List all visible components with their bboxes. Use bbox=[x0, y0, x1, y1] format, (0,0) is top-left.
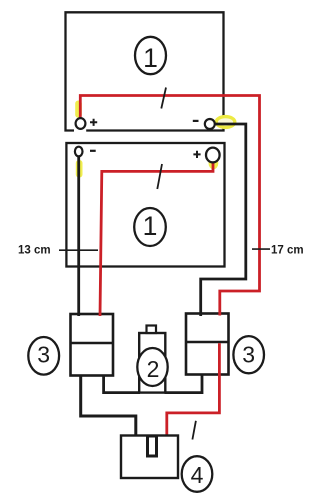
wire black right block 3 bottom to lamp 2 bbox=[165, 375, 203, 393]
pointer line 17 cm bbox=[252, 248, 270, 250]
plus sign B1 bbox=[90, 119, 97, 126]
label circle 3 right bbox=[233, 336, 264, 373]
svg-text:1: 1 bbox=[143, 43, 158, 73]
terminal B2 plus bbox=[206, 148, 220, 163]
wire red from B1 plus terminal to right block 3 bbox=[80, 96, 259, 316]
slash tag on top red wire bbox=[161, 88, 166, 109]
plus sign B2 bbox=[193, 151, 200, 158]
battery box B1 (top, bottom edge has gap at left terminal) bbox=[66, 12, 224, 130]
svg-text:1: 1 bbox=[143, 211, 158, 241]
divider of right block 3 bbox=[186, 341, 229, 343]
label circle 3 left bbox=[28, 337, 59, 375]
minus sign B1 bbox=[193, 120, 199, 122]
highlight Y3 on battery B2 minus terminal wire bbox=[76, 160, 83, 178]
svg-text:13 cm: 13 cm bbox=[18, 245, 51, 257]
wire black left block 3 bottom to block 4 bbox=[81, 376, 136, 438]
svg-text:3: 3 bbox=[242, 342, 255, 368]
resistor block 3 right bbox=[186, 314, 229, 375]
svg-text:3: 3 bbox=[37, 342, 50, 368]
battery box B2 (inner) bbox=[66, 143, 224, 267]
wire red from B2 plus terminal to left block 3 bbox=[100, 161, 213, 316]
label circle 1 top battery bbox=[135, 37, 166, 74]
terminal B1 plus bbox=[76, 118, 86, 129]
svg-text:2: 2 bbox=[147, 356, 160, 382]
wire black from B1 minus terminal to right block 3 bbox=[201, 124, 246, 316]
svg-text:4: 4 bbox=[191, 462, 204, 488]
minus sign B2 bbox=[90, 150, 96, 152]
highlight Y4 on battery B2 plus terminal wire bbox=[209, 157, 219, 169]
svg-text:17 cm: 17 cm bbox=[271, 244, 304, 256]
wire black left block 3 bottom to lamp 2 bbox=[104, 376, 140, 393]
label circle 1 inner battery bbox=[134, 208, 166, 246]
highlight Y2 on battery B1 minus terminal wire bbox=[216, 117, 235, 128]
pointer line 13 cm bbox=[59, 249, 98, 251]
wire red right block 3 through to block 4 bbox=[167, 343, 220, 437]
lamp block 2 body bbox=[139, 333, 165, 393]
motor block 4 body bbox=[121, 436, 178, 479]
slash tag on inner red wire bbox=[157, 164, 162, 189]
wire black from B2 minus terminal to left block 3 bbox=[77, 155, 80, 316]
label circle 2 lamp bbox=[137, 348, 167, 386]
resistor block 3 left bbox=[71, 314, 114, 376]
terminal B1 minus bbox=[205, 119, 215, 129]
label circle 4 motor bbox=[182, 456, 213, 492]
slash tag near block 4 bbox=[192, 421, 196, 440]
highlight Y1 on battery B1 plus terminal bbox=[75, 101, 82, 118]
terminal B2 minus bbox=[75, 147, 83, 157]
motor block 4 slot bbox=[148, 436, 157, 456]
divider of left block 3 bbox=[71, 342, 114, 344]
lamp block 2 top tab bbox=[147, 326, 157, 334]
